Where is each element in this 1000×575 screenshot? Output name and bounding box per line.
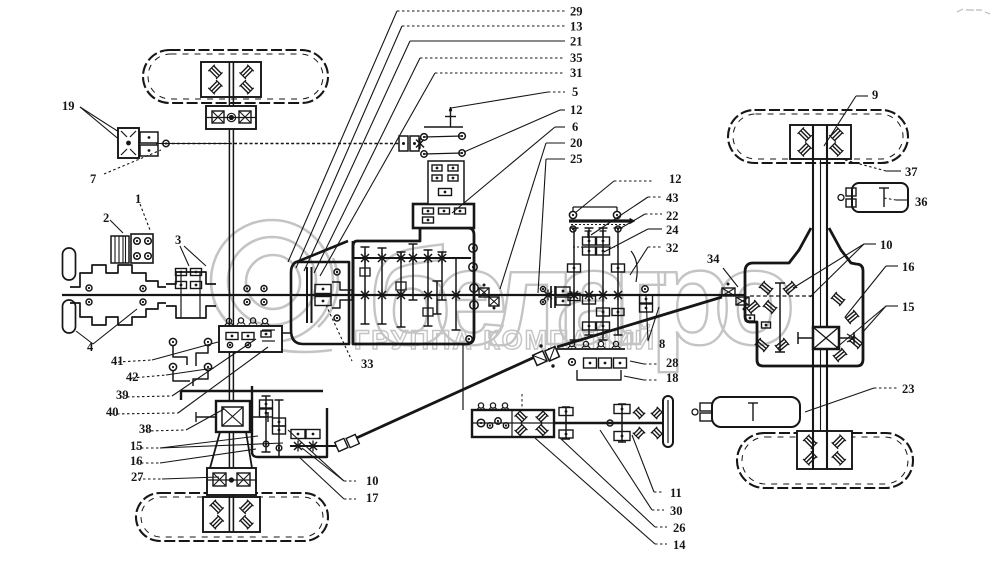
leader 39	[122, 396, 172, 397]
svg-text:16: 16	[902, 260, 915, 274]
leader 37	[845, 160, 886, 171]
propshaft diagonal front segment	[352, 356, 537, 440]
hub bottom-left	[203, 497, 260, 532]
leader 16r	[886, 265, 898, 267]
svg-text:3: 3	[175, 233, 181, 247]
front-drive bevel on shaft	[399, 136, 408, 151]
leader 13	[402, 25, 565, 27]
leader 34	[723, 268, 738, 287]
leader 22	[645, 213, 662, 215]
svg-text:42: 42	[126, 370, 139, 384]
final-drive front-left upper	[206, 106, 256, 129]
leader 4	[76, 331, 93, 344]
front drive shaft horizontal line	[156, 143, 420, 145]
leader 25	[546, 158, 565, 160]
svg-text:15: 15	[130, 439, 143, 453]
gearbox case outline	[353, 228, 474, 344]
rear axle bevel gears	[759, 281, 773, 295]
leader 42	[132, 375, 166, 378]
hub top-right	[790, 125, 851, 159]
final-drive box bottom-left	[207, 468, 256, 495]
leader 32	[648, 246, 662, 248]
transfer gear train	[265, 396, 267, 452]
leader 5	[548, 91, 565, 93]
bearing symbols on crank	[86, 285, 92, 291]
rear axle vertical shaft	[812, 160, 814, 433]
bearing under case corner	[466, 336, 472, 342]
svg-text:39: 39	[116, 388, 129, 402]
leader 15	[136, 447, 160, 449]
tire rear-left (bottom)	[136, 493, 328, 541]
svg-text:27: 27	[131, 470, 144, 484]
crankshaft pulley ellipses	[63, 248, 76, 280]
leader 23	[805, 388, 874, 412]
flywheel discs	[306, 267, 308, 323]
rear diff input gear	[779, 283, 781, 352]
leader 10r	[864, 243, 876, 245]
transfer housing outline	[252, 386, 327, 457]
svg-text:12: 12	[669, 172, 682, 186]
leader 1	[140, 204, 150, 230]
rear shift fork tops	[587, 231, 589, 238]
rear differential square	[813, 327, 839, 349]
leader 3	[180, 246, 189, 266]
svg-text:1: 1	[135, 192, 141, 206]
case right wall bearings	[469, 244, 477, 252]
leader 38	[146, 430, 186, 431]
corner mark	[957, 9, 990, 14]
svg-text:4: 4	[87, 340, 94, 354]
svg-text:28: 28	[666, 356, 679, 370]
brake accumulator 36	[852, 183, 908, 212]
rear lower gear row	[584, 358, 597, 368]
rear lower bracket	[577, 370, 621, 380]
leader 19	[80, 107, 119, 132]
rear hat row	[569, 341, 574, 346]
svg-text:22: 22	[666, 209, 679, 223]
leader 36	[884, 198, 896, 200]
svg-text:29: 29	[570, 5, 583, 19]
gear collars	[360, 268, 370, 276]
svg-text:2: 2	[103, 211, 109, 225]
svg-text:33: 33	[361, 357, 374, 371]
main engine-to-rear shaft	[62, 294, 744, 296]
pto input pin	[424, 126, 463, 128]
leader 41	[118, 360, 152, 362]
upper column corner rollers	[421, 134, 428, 141]
rear axle coupling 34	[722, 288, 735, 296]
watermark swirl logo	[211, 220, 338, 352]
pto cluster B	[621, 404, 623, 442]
tire top-right	[728, 110, 908, 163]
leader 14	[535, 438, 655, 544]
svg-text:23: 23	[902, 382, 915, 396]
svg-text:25: 25	[570, 152, 583, 166]
gearbox gear trains	[364, 247, 366, 324]
transfer output gears	[291, 430, 305, 439]
leader 9	[856, 95, 868, 97]
svg-text:26: 26	[673, 521, 686, 535]
release bearing	[332, 282, 352, 308]
svg-text:20: 20	[570, 136, 583, 150]
clutch housing outline	[291, 262, 349, 344]
svg-text:12: 12	[570, 103, 583, 117]
shift fork 41	[169, 338, 176, 345]
upper clutch column	[428, 161, 464, 204]
clutch plates	[315, 285, 331, 294]
transfer output coupling	[335, 434, 360, 453]
svg-text:13: 13	[570, 20, 583, 34]
right cluster	[642, 286, 648, 292]
tire bottom-right	[737, 433, 913, 488]
pto cluster A	[565, 407, 567, 439]
svg-text:24: 24	[666, 223, 679, 237]
shaft mid bearings	[541, 287, 546, 292]
leader 7	[104, 150, 161, 174]
leader 40	[112, 413, 178, 414]
rear selector rail thick bar	[569, 219, 631, 222]
left brake cluster	[550, 286, 552, 308]
range box upper thick box	[413, 204, 474, 228]
svg-text:41: 41	[111, 354, 124, 368]
part 1 clutch block with four rollers	[131, 234, 153, 263]
leader 11	[632, 435, 654, 492]
svg-text:40: 40	[106, 405, 119, 419]
front axle vertical shaft	[228, 64, 230, 497]
svg-text:6: 6	[572, 120, 578, 134]
rear axle small gears	[746, 315, 755, 321]
leader 16	[136, 462, 160, 464]
front diff bevel box	[216, 401, 250, 432]
part 3 pto drive gears	[176, 269, 187, 276]
svg-text:38: 38	[139, 422, 152, 436]
svg-text:32: 32	[666, 241, 679, 255]
hub front-left	[201, 62, 261, 97]
hub bottom-right	[797, 431, 852, 469]
wire case to pto box	[462, 344, 464, 410]
propshaft universal joint	[533, 346, 560, 367]
leader 15r	[886, 305, 898, 307]
svg-text:7: 7	[90, 172, 96, 186]
front axle funnel	[210, 432, 220, 468]
leader 21	[410, 40, 565, 42]
svg-text:43: 43	[666, 191, 679, 205]
rear section top shaft	[573, 206, 617, 208]
leader 33	[326, 305, 352, 361]
rear shaft mesh marks	[570, 291, 578, 299]
leader 28	[630, 361, 644, 364]
svg-text:21: 21	[570, 35, 583, 49]
leader 12b	[614, 180, 652, 182]
svg-text:10: 10	[880, 238, 893, 252]
part 2 ribbed damper	[111, 236, 129, 263]
svg-text:35: 35	[570, 51, 583, 65]
svg-text:14: 14	[673, 538, 686, 552]
rear gear wheels	[583, 237, 596, 245]
rear lower shaft	[548, 348, 625, 350]
pto shaft to case	[282, 332, 291, 334]
pto end disc	[663, 396, 673, 447]
leader 8	[646, 296, 648, 341]
svg-text:31: 31	[570, 66, 583, 80]
leader 30	[600, 430, 652, 510]
lower-left pto box with hats	[219, 326, 282, 352]
svg-text:37: 37	[905, 165, 918, 179]
leader 26	[560, 438, 655, 527]
rear gear shafts vertical	[573, 228, 575, 340]
pto shaft rear	[554, 422, 663, 424]
pto small bevel pairs	[633, 407, 645, 419]
svg-text:5: 5	[572, 85, 578, 99]
svg-text:19: 19	[62, 99, 75, 113]
svg-text:16: 16	[130, 454, 143, 468]
front axle housing top edge	[181, 390, 323, 392]
leader 35	[420, 57, 565, 59]
rear axle housing outline	[745, 228, 863, 366]
svg-text:34: 34	[707, 252, 720, 266]
gearbox upper shaft	[352, 257, 471, 259]
shift fork 42	[169, 363, 176, 370]
clutch housing top diagonal	[294, 241, 348, 263]
leader 17	[344, 498, 356, 500]
leader 12 top	[560, 109, 565, 111]
bearings before flywheel	[244, 286, 250, 292]
leader 18	[624, 376, 644, 380]
svg-text:36: 36	[915, 195, 928, 209]
leader 43	[648, 196, 662, 198]
tire front-left	[143, 50, 328, 103]
pto gear box bottom	[472, 410, 554, 437]
leader 29	[397, 10, 565, 12]
svg-text:15: 15	[902, 300, 915, 314]
svg-text:17: 17	[366, 491, 379, 505]
leader 20	[546, 142, 565, 144]
engine crank outline	[70, 265, 166, 287]
svg-text:10: 10	[366, 474, 379, 488]
wire component 19 couple	[118, 128, 139, 158]
output coupling after case	[479, 288, 489, 297]
brake accumulator 23 lower	[712, 397, 800, 427]
leader 24	[648, 228, 662, 230]
svg-text:30: 30	[670, 504, 683, 518]
svg-text:18: 18	[666, 371, 679, 385]
svg-text:9: 9	[872, 88, 878, 102]
leader 10	[344, 480, 356, 482]
flange coupling	[166, 272, 216, 284]
svg-text:8: 8	[659, 337, 665, 351]
propshaft diagonal rear segment	[557, 297, 722, 347]
leader 31	[435, 72, 565, 74]
leader 2	[110, 220, 123, 233]
leader 27	[138, 478, 162, 480]
leader 6	[555, 126, 565, 128]
svg-text:11: 11	[670, 486, 682, 500]
